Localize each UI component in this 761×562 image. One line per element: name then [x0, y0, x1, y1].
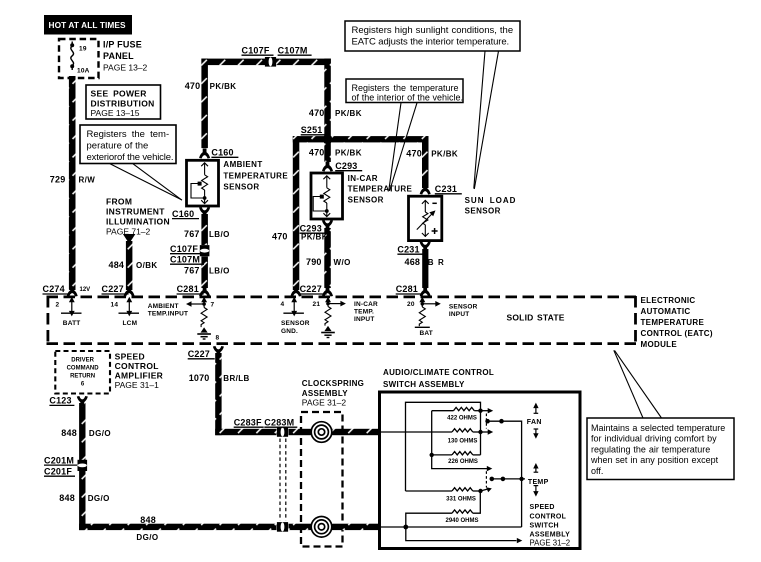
svg-text:SENSOR: SENSOR [449, 303, 478, 310]
wire bottom entry row [381, 526, 522, 528]
svg-text:ILLUMINATION: ILLUMINATION [106, 216, 170, 226]
switch dashed wiper TEMP [485, 471, 487, 487]
svg-text:C201M: C201M [44, 455, 74, 465]
svg-text:C231: C231 [435, 184, 457, 194]
connector C107F/C107M inline pair on top wire [265, 57, 276, 67]
clockspring coil lower [311, 517, 332, 538]
svg-text:AMBIENT: AMBIENT [223, 160, 262, 169]
svg-text:ASSEMBLY: ASSEMBLY [530, 532, 571, 539]
svg-text:W/O: W/O [334, 258, 351, 267]
svg-text:PANEL: PANEL [103, 51, 134, 61]
svg-text:12V: 12V [80, 287, 91, 293]
wire W3 lower segment C160-C107F [201, 214, 208, 245]
svg-text:8: 8 [216, 335, 220, 342]
svg-text:PAGE 13–15: PAGE 13–15 [91, 108, 140, 118]
fuse box F19 dashed outline [59, 39, 99, 78]
wire temp lower throw stub [480, 489, 487, 491]
wire 2940 ohm row [406, 513, 452, 527]
callout pointer to ambient sensor [110, 164, 182, 200]
svg-text:4: 4 [281, 301, 285, 308]
connector C227 bottom fork (pin 8 wire) [213, 346, 224, 356]
svg-text:C227: C227 [188, 349, 210, 359]
svg-text:off.: off. [591, 466, 603, 476]
speed control amplifier dashed box (DRIVER COMMAND RETURN 6) [55, 351, 110, 394]
svg-text:MODULE: MODULE [641, 340, 678, 349]
svg-text:C160: C160 [211, 148, 233, 158]
svg-text:Maintains a selected temperatu: Maintains a selected temperature [591, 423, 725, 433]
svg-text:RETURN: RETURN [70, 373, 95, 379]
svg-text:when set in any position excep: when set in any position except [590, 455, 719, 465]
svg-text:PK/BK: PK/BK [335, 149, 362, 158]
wire W2 source arrow [123, 234, 135, 244]
svg-text:7: 7 [211, 302, 215, 309]
svg-text:19: 19 [79, 45, 87, 52]
wire W3 767 LB/O upper segment (C160 to corner) [201, 59, 208, 149]
svg-text:perature of the: perature of the [87, 140, 149, 151]
svg-text:C293: C293 [300, 223, 322, 233]
svg-text:PK/BK: PK/BK [431, 149, 458, 158]
ambient temperature sensor box [187, 160, 219, 206]
callout: registers exterior temperature [80, 125, 176, 164]
svg-text:AUDIO/CLIMATE CONTROL: AUDIO/CLIMATE CONTROL [383, 368, 494, 377]
svg-text:SOLID STATE: SOLID STATE [507, 312, 565, 322]
svg-text:468: 468 [405, 257, 421, 267]
switch network thin wiring [381, 402, 525, 540]
wire fan throw stubs [481, 410, 489, 412]
svg-text:PK/BK: PK/BK [335, 109, 362, 118]
svg-text:INPUT: INPUT [449, 311, 470, 318]
svg-text:C107M: C107M [278, 45, 308, 55]
resistor 2940 OHMS [452, 510, 473, 513]
wire temp wiper row [492, 478, 525, 480]
svg-text:2: 2 [56, 302, 60, 309]
wire 130 row to node R [473, 431, 481, 433]
wire W1 729 R/W vertical from fuse to C274 [69, 76, 76, 290]
svg-text:PAGE 71–2: PAGE 71–2 [106, 226, 151, 236]
svg-text:848: 848 [61, 428, 77, 438]
connector C293 below in-car sensor [322, 220, 333, 230]
svg-text:I/P FUSE: I/P FUSE [103, 39, 142, 49]
svg-text:AMBIENT: AMBIENT [148, 303, 179, 310]
svg-text:484: 484 [109, 260, 125, 270]
sun load sensor box [409, 196, 442, 240]
svg-text:6: 6 [81, 381, 85, 387]
svg-text:CONTROL (EATC): CONTROL (EATC) [641, 329, 713, 338]
svg-text:IN-CAR: IN-CAR [354, 301, 378, 308]
svg-text:331 OHMS: 331 OHMS [446, 496, 476, 502]
svg-text:SWITCH: SWITCH [530, 522, 559, 529]
svg-text:SENSOR: SENSOR [281, 320, 310, 327]
wire 226 ohm row [432, 454, 452, 456]
EATC module dashed box [47, 296, 637, 344]
in-car temperature sensor box [311, 173, 343, 219]
svg-text:PAGE 13–2: PAGE 13–2 [103, 62, 148, 72]
svg-text:C201F: C201F [44, 466, 72, 476]
svg-text:exteriorof the vehicle.: exteriorof the vehicle. [87, 152, 174, 163]
svg-text:767: 767 [184, 229, 200, 239]
HOT AT ALL TIMES header [44, 15, 132, 35]
connector C227 mid fork at EATC [322, 287, 333, 297]
in-car sensor thermistor internals [313, 176, 330, 217]
EATC pin 7 ambient temp input symbol [190, 300, 207, 328]
svg-text:DG/O: DG/O [136, 533, 158, 542]
svg-text:FROM: FROM [106, 196, 132, 206]
resistor 130 OHMS [452, 429, 473, 432]
svg-text:C107M: C107M [170, 254, 200, 264]
TEMP up/down arrows [534, 466, 539, 493]
connector C227 in-car fork at EATC [291, 287, 302, 297]
resistor 422 OHMS [454, 407, 475, 410]
svg-text:INSTRUMENT: INSTRUMENT [106, 206, 165, 216]
svg-text:470: 470 [309, 148, 325, 158]
connector C293 above in-car sensor [322, 162, 333, 172]
resistor 226 OHMS [452, 452, 473, 455]
wire W8 848 DG/O bottom horizontal [79, 524, 276, 530]
svg-text:FAN: FAN [527, 419, 542, 426]
connector C227 left fork at EATC [124, 287, 135, 297]
svg-text:DISTRIBUTION: DISTRIBUTION [91, 99, 155, 109]
connector C283F/C283M pair lower [277, 522, 288, 532]
svg-text:422 OHMS: 422 OHMS [447, 415, 477, 421]
svg-text:ELECTRONIC: ELECTRONIC [641, 296, 696, 305]
svg-text:C107F: C107F [242, 45, 270, 55]
svg-text:470: 470 [272, 231, 288, 241]
wire W8 848 DG/O vertical from C123 [79, 403, 85, 530]
connector C231 below sun load sensor [420, 242, 431, 252]
connector C283 body dashed links [280, 439, 286, 521]
svg-text:HOT AT ALL TIMES: HOT AT ALL TIMES [49, 20, 127, 30]
svg-text:PAGE 31–1: PAGE 31–1 [115, 380, 160, 390]
svg-text:C281: C281 [396, 284, 418, 294]
svg-text:SWITCH ASSEMBLY: SWITCH ASSEMBLY [383, 380, 465, 389]
EATC pin 14 LCM symbol [119, 300, 140, 314]
wire W6b 468 BR solid below sun load sensor [422, 249, 428, 288]
svg-text:LB/O: LB/O [209, 267, 230, 276]
sun load sensor minus label [432, 202, 436, 204]
svg-text:R/W: R/W [79, 176, 96, 185]
FAN up/down arrows [534, 406, 539, 436]
svg-text:CONTROL: CONTROL [530, 513, 567, 520]
connector C107F/C107M inline pair on wire W3 [200, 245, 210, 256]
svg-text:C231: C231 [397, 244, 419, 254]
switch throw arrowheads [488, 408, 494, 413]
callout: registers high sunlight [345, 21, 520, 51]
wire to speed control switch assembly [406, 527, 517, 541]
svg-text:790: 790 [306, 257, 322, 267]
svg-text:PK/BK: PK/BK [210, 82, 237, 91]
connector C281 sun fork at EATC [420, 287, 431, 297]
svg-text:for individual driving comfort: for individual driving comfort by [591, 434, 717, 444]
resistor 331 OHMS [452, 488, 473, 491]
svg-text:C227: C227 [300, 284, 322, 294]
wire W5 470 PK/BK center vertical down to S251 and C293 [324, 59, 331, 162]
svg-text:ASSEMBLY: ASSEMBLY [302, 389, 348, 398]
audio/climate control switch assembly box [380, 392, 581, 549]
EATC pin 21 in-car temp input symbol [325, 300, 341, 326]
EATC pin 4 SENSOR GND symbol [283, 300, 304, 314]
connector C274 fork at EATC [67, 287, 78, 297]
wire 422 ohm row [432, 410, 454, 412]
svg-text:10A: 10A [77, 68, 90, 75]
svg-text:21: 21 [313, 301, 321, 308]
connector C123 fork below driver box [77, 396, 88, 406]
svg-text:Registers high sunlight condit: Registers high sunlight conditions, the [352, 25, 514, 36]
svg-text:regulating the air temperature: regulating the air temperature [591, 444, 710, 454]
svg-text:SPEED: SPEED [115, 351, 145, 361]
svg-text:Registers the tem-: Registers the tem- [87, 129, 170, 140]
svg-text:C274: C274 [43, 284, 65, 294]
callout: maintains selected temperature [614, 350, 662, 418]
connector C160 above ambient sensor [199, 149, 210, 159]
see power distribution box [86, 85, 161, 119]
switch wiper dots TEMP [490, 477, 495, 482]
connector C160 below ambient sensor [199, 207, 210, 217]
wire W7 1070 BR/LB vertical from C227 pin8 [215, 353, 221, 435]
svg-text:C123: C123 [49, 396, 71, 406]
fuse 19 10A symbol [71, 42, 74, 71]
svg-text:C227: C227 [102, 284, 124, 294]
wire W6 470 PK/BK to sun load sensor [422, 136, 429, 188]
wire bus2 and temp upper throw [432, 411, 488, 469]
wire W4 470 PK/BK left branch vertical [293, 136, 300, 290]
svg-text:TEMP: TEMP [528, 479, 549, 486]
wire 331 ohm row [406, 490, 453, 492]
svg-text:C293: C293 [335, 161, 357, 171]
svg-text:AMPLIFIER: AMPLIFIER [115, 370, 164, 380]
callout pointer to in-car sensor [389, 103, 417, 191]
wire fan wiper row [488, 421, 522, 527]
svg-text:Registers the temperature: Registers the temperature [352, 83, 459, 93]
callout pointer to sun load sensor [474, 51, 499, 189]
svg-text:PAGE 31–2: PAGE 31–2 [302, 398, 347, 408]
svg-text:SENSOR: SENSOR [465, 207, 501, 216]
svg-text:EATC adjusts the interior temp: EATC adjusts the interior temperature. [352, 36, 510, 47]
wire W5 below in-car sensor 790 W/O [324, 228, 331, 288]
svg-text:O/BK: O/BK [136, 261, 158, 270]
svg-text:CONTROL: CONTROL [115, 361, 159, 371]
wire splice horizontal S251 [293, 136, 429, 142]
svg-text:848: 848 [59, 493, 75, 503]
wire W2 484 O/BK vertical from illumination to C227 [126, 241, 132, 290]
wire top feedback row [406, 402, 481, 491]
svg-text:BATT: BATT [63, 320, 81, 327]
svg-text:BR/LB: BR/LB [223, 374, 249, 383]
svg-text:of the interior of the vehicle: of the interior of the vehicle. [352, 93, 464, 103]
svg-text:20: 20 [407, 301, 415, 308]
wire W7 horizontal C283M to switch box [289, 429, 381, 435]
svg-text:TEMPERATURE: TEMPERATURE [641, 318, 705, 327]
svg-text:226 OHMS: 226 OHMS [448, 459, 478, 465]
svg-text:C107F: C107F [170, 244, 198, 254]
svg-text:SEE POWER: SEE POWER [91, 89, 147, 99]
EATC pin 20 sensor input symbol [415, 300, 436, 328]
svg-text:PAGE 31–2: PAGE 31–2 [530, 539, 571, 548]
connector C281 ambient fork at EATC [199, 287, 210, 297]
svg-text:TEMP.: TEMP. [354, 309, 374, 316]
svg-text:IN-CAR: IN-CAR [348, 174, 378, 183]
svg-text:SPEED: SPEED [530, 504, 555, 511]
svg-text:470: 470 [406, 148, 422, 158]
svg-text:TEMPERATURE: TEMPERATURE [348, 185, 413, 194]
arrow to speed control switch assembly [517, 538, 523, 543]
svg-text:GND.: GND. [281, 328, 298, 335]
svg-text:S251: S251 [301, 125, 323, 135]
wire W7 horizontal to C283F [215, 429, 276, 435]
svg-text:LB/O: LB/O [209, 230, 230, 239]
svg-text:1070: 1070 [189, 373, 210, 383]
svg-text:14: 14 [111, 302, 119, 309]
svg-text:TEMP.INPUT: TEMP.INPUT [148, 311, 189, 318]
svg-text:DG/O: DG/O [88, 494, 110, 503]
svg-text:SENSOR: SENSOR [348, 195, 384, 204]
svg-text:CLOCKSPRING: CLOCKSPRING [302, 379, 364, 388]
junction dots switch network [478, 409, 482, 413]
EATC pin 21 internal ground [321, 326, 335, 338]
svg-text:130 OHMS: 130 OHMS [448, 439, 478, 445]
wire W3 segment C107M-C281 [201, 257, 208, 289]
clockspring assembly dashed box [301, 412, 343, 547]
svg-text:SENSOR: SENSOR [223, 182, 259, 191]
sun load sensor photocell internals [417, 200, 433, 237]
ambient sensor thermistor internals [191, 163, 208, 204]
wire W8 horizontal C283M to switch box lower [289, 524, 381, 530]
svg-text:C283F: C283F [234, 417, 262, 427]
connector C201M/C201F inline pair [78, 460, 88, 471]
switch dashed wiper FAN [485, 414, 487, 429]
svg-text:SUN LOAD: SUN LOAD [465, 196, 517, 205]
svg-text:470: 470 [185, 81, 201, 91]
wire 130 ohm row entry [381, 431, 452, 433]
svg-text:C283M: C283M [264, 417, 294, 427]
svg-text:848: 848 [140, 515, 156, 525]
svg-text:C281: C281 [177, 284, 199, 294]
svg-text:LCM: LCM [123, 320, 138, 327]
splice S251 dot [323, 135, 333, 145]
svg-text:BAT: BAT [420, 330, 433, 337]
connector C231 above sun load sensor [420, 185, 431, 195]
connector C283F/C283M pair upper [277, 427, 288, 437]
EATC pin 7 internal ground [197, 327, 211, 339]
svg-text:2940 OHMS: 2940 OHMS [445, 518, 478, 524]
svg-text:TEMPERATURE: TEMPERATURE [223, 171, 288, 180]
svg-text:729: 729 [50, 175, 66, 185]
EATC pin 2 BATT symbol [61, 300, 82, 314]
switch wiper dots FAN [485, 419, 490, 424]
svg-text:DRIVER: DRIVER [71, 357, 94, 363]
callout: registers interior temperature [346, 79, 463, 103]
svg-text:470: 470 [309, 108, 325, 118]
svg-text:C160: C160 [172, 209, 194, 219]
svg-text:INPUT: INPUT [354, 316, 375, 323]
sun load sensor plus label [432, 228, 438, 234]
svg-text:B R: B R [428, 258, 444, 267]
svg-text:COMMAND: COMMAND [67, 365, 100, 371]
svg-text:767: 767 [184, 266, 200, 276]
svg-text:DG/O: DG/O [89, 429, 111, 438]
clockspring coil upper [311, 422, 332, 443]
svg-text:AUTOMATIC: AUTOMATIC [641, 307, 691, 316]
wire top horizontal 470 PK/BK [201, 59, 330, 66]
